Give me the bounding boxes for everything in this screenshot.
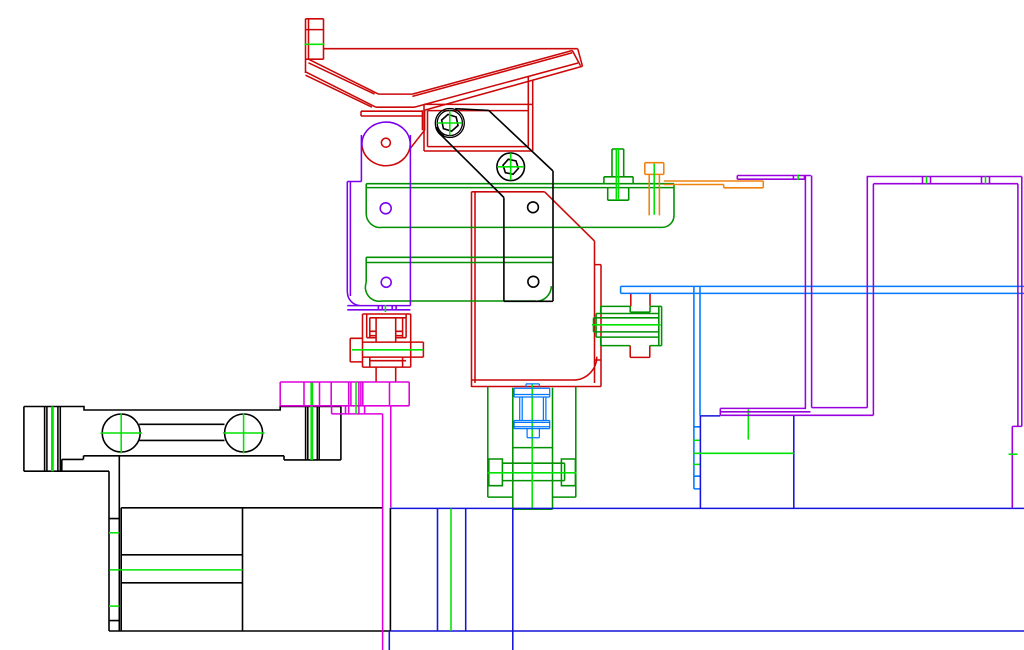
tensioner green centerline bbox=[352, 349, 424, 351]
green plate 2 bbox=[365, 257, 552, 301]
strap bolt 2 inner bbox=[503, 159, 518, 174]
load cell circle left bbox=[102, 414, 140, 452]
magenta clamp comb bbox=[280, 382, 409, 414]
green plate 1 bbox=[366, 184, 674, 228]
green bolt mount assembly bbox=[488, 387, 576, 510]
orange bolt green centerline bbox=[653, 164, 655, 215]
red bracket housing bbox=[472, 192, 602, 387]
blue slide block bbox=[700, 416, 793, 509]
red support column and bolt plate bbox=[424, 77, 533, 151]
rod green tick lower bbox=[693, 463, 701, 465]
base body block bbox=[109, 508, 390, 631]
purple bracket 1 bbox=[737, 176, 811, 409]
bracket 2 green tick B bbox=[985, 177, 987, 184]
circle left crosshair bbox=[101, 413, 143, 453]
slide block green centerline bbox=[694, 452, 794, 454]
wedge clamp arm mounting tab bbox=[306, 19, 324, 73]
right clamp bolt lines bbox=[306, 407, 320, 460]
pulley axle circle bbox=[381, 138, 390, 147]
violet pulley frame bbox=[347, 135, 410, 310]
red screw retainer legs bbox=[630, 293, 650, 357]
pulley lower arc bbox=[362, 141, 410, 166]
bolt mount vertical centerline bbox=[531, 385, 533, 510]
cyan anchor bolt bbox=[514, 384, 550, 438]
strap bolt 2 outer bbox=[497, 153, 525, 181]
wedge tab green centerline bbox=[305, 43, 325, 45]
strap bolt 1 thread arc bbox=[436, 127, 444, 136]
black strap bracket bbox=[439, 109, 553, 302]
base body green centerline bbox=[110, 569, 243, 571]
blue base top line bbox=[390, 507, 1024, 509]
pulley housing box bbox=[361, 110, 425, 149]
right clamp green line bbox=[311, 382, 312, 460]
slide block green vertical bbox=[747, 409, 749, 439]
purple bracket 2 bbox=[867, 177, 1022, 509]
plate 2 hole bbox=[381, 277, 391, 287]
bolt mount horizontal centerline bbox=[488, 472, 577, 474]
orange bolt and rail bbox=[645, 163, 764, 216]
load cell slot bbox=[139, 424, 224, 440]
pulley upper arc bbox=[362, 122, 410, 147]
rod green tick upper bbox=[693, 439, 701, 441]
magenta drop line A bbox=[382, 414, 384, 650]
blue base bottom line bbox=[390, 630, 1024, 632]
wedge rocker arm body bbox=[306, 49, 583, 111]
strap bolt 1 outer bbox=[435, 108, 464, 137]
bracket 2 green tick A bbox=[926, 177, 928, 184]
strap bolt 2 crosshair bbox=[497, 153, 524, 180]
neck green tick upper bbox=[109, 532, 119, 534]
green hex bolt on plate bbox=[604, 149, 633, 200]
blue base green line bbox=[450, 508, 452, 631]
blue base verticals bbox=[389, 508, 513, 650]
strap hole upper bbox=[528, 202, 539, 213]
strap bolt 1 crosshair bbox=[437, 111, 462, 136]
left clamp green line bbox=[52, 407, 53, 472]
strap bolt 1 mid bbox=[437, 110, 462, 135]
magenta drop line B bbox=[390, 406, 392, 508]
bracket 2 bottom green tick bbox=[1009, 453, 1018, 455]
strap hole lower bbox=[528, 276, 539, 287]
green bolt centerline bbox=[616, 148, 618, 200]
load cell bar outline bbox=[24, 407, 341, 472]
red tensioner clamp bbox=[350, 314, 423, 382]
plate 1 hole bbox=[380, 203, 391, 214]
green adjuster screw bbox=[594, 306, 662, 345]
left clamp bolt lines bbox=[45, 407, 61, 472]
purple slide rails bbox=[720, 408, 873, 416]
load cell circle right bbox=[225, 414, 263, 452]
adjuster screw centerline bbox=[592, 324, 661, 326]
circle right crosshair bbox=[223, 413, 265, 453]
support neck bbox=[109, 456, 119, 631]
frame green tick bbox=[384, 305, 386, 312]
strap bolt 1 inner bbox=[442, 114, 458, 131]
comb green tick left bbox=[355, 382, 357, 414]
green plate 2 corner fillet bbox=[536, 286, 552, 301]
neck green tick lower bbox=[109, 605, 119, 607]
bracket 1 green tick bbox=[797, 175, 799, 181]
light blue guide rails bbox=[621, 286, 1024, 293]
light blue threaded rod bbox=[694, 286, 700, 489]
